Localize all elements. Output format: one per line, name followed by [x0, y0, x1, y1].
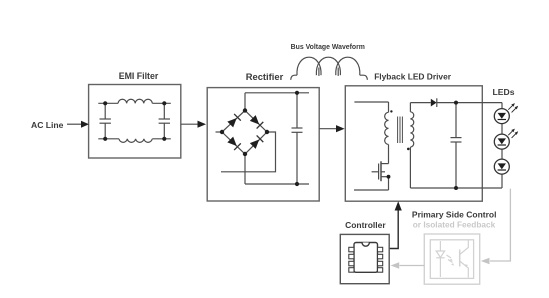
svg-text:or Isolated Feedback: or Isolated Feedback: [413, 220, 496, 230]
svg-text:LEDs: LEDs: [493, 87, 515, 97]
svg-text:AC Line: AC Line: [31, 120, 64, 130]
svg-text:Bus Voltage Waveform: Bus Voltage Waveform: [291, 44, 365, 51]
svg-text:Controller: Controller: [345, 220, 386, 230]
svg-text:EMI Filter: EMI Filter: [119, 71, 159, 81]
svg-text:Rectifier: Rectifier: [246, 71, 284, 82]
svg-text:Flyback LED Driver: Flyback LED Driver: [374, 72, 452, 82]
svg-text:Primary Side Control: Primary Side Control: [412, 209, 497, 219]
